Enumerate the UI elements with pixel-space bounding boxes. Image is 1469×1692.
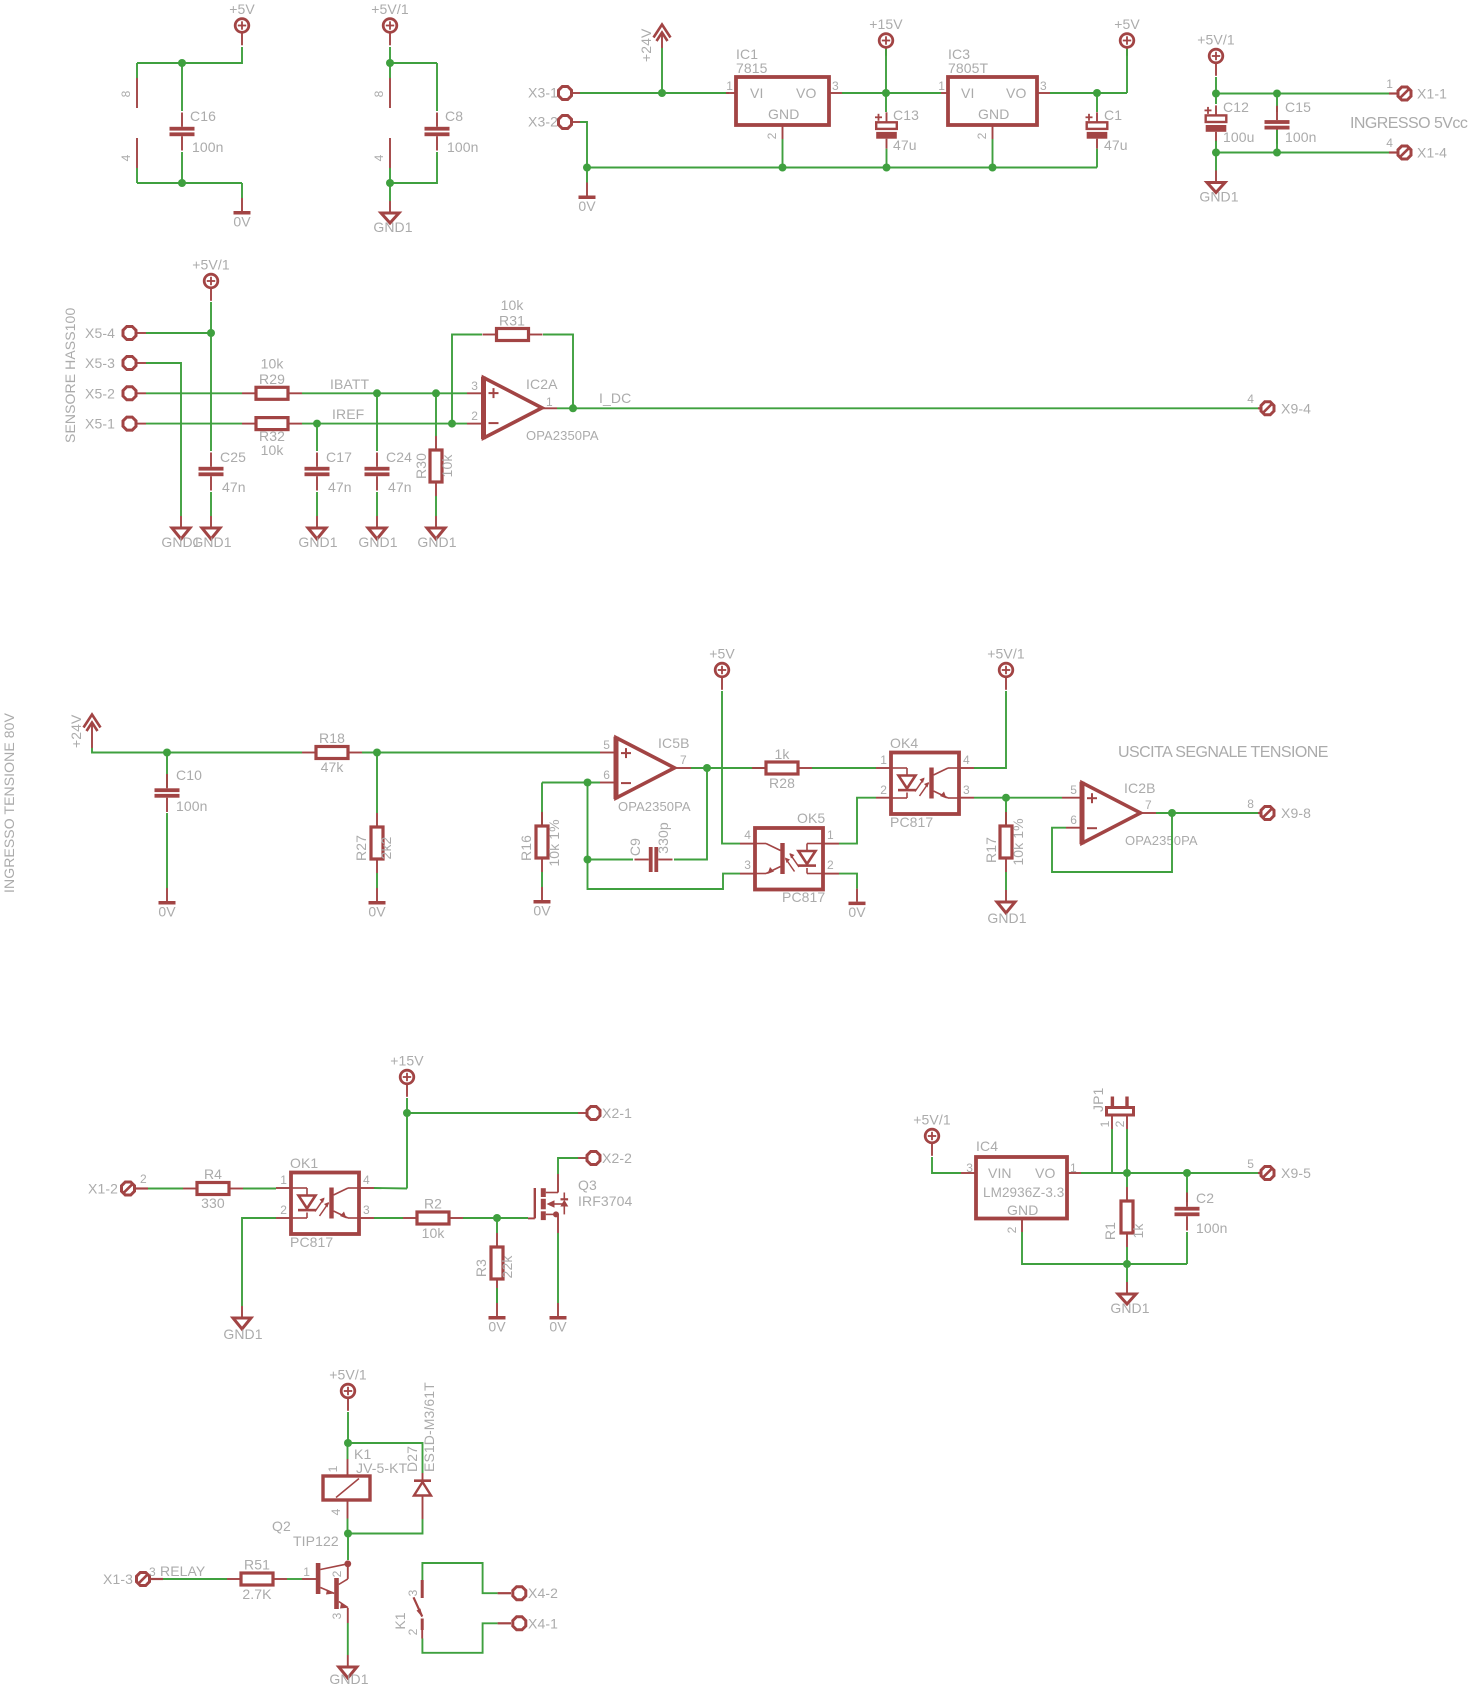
wire xyxy=(347,1534,349,1561)
ground 0V xyxy=(557,1288,559,1303)
svg-text:4: 4 xyxy=(963,753,970,767)
junction xyxy=(583,164,591,172)
svg-text:+5V: +5V xyxy=(1114,16,1140,32)
op-amp IC5B xyxy=(600,752,616,754)
svg-text:IC2B: IC2B xyxy=(1124,780,1156,796)
supply +24V arrow xyxy=(654,25,671,38)
wire xyxy=(146,392,242,394)
svg-text:X4-2: X4-2 xyxy=(528,1585,558,1601)
svg-text:47n: 47n xyxy=(388,479,412,495)
relay contact K1 xyxy=(422,1563,497,1598)
junction xyxy=(569,404,577,412)
wire xyxy=(812,767,876,769)
supply +5V xyxy=(1120,34,1134,48)
capacitor C10 100n xyxy=(166,753,168,788)
svg-text:X5-2: X5-2 xyxy=(85,385,115,401)
svg-text:0V: 0V xyxy=(533,903,551,919)
svg-text:R18: R18 xyxy=(319,730,345,746)
svg-text:6: 6 xyxy=(603,768,610,782)
wire OK4 pin3 out xyxy=(974,797,1062,799)
wire xyxy=(210,302,212,333)
wire OK5 pin2 to 0V xyxy=(839,873,857,875)
svg-text:4: 4 xyxy=(363,1173,370,1187)
svg-text:X9-8: X9-8 xyxy=(1281,805,1311,821)
wire OK1 pin3 xyxy=(374,1217,403,1219)
wire xyxy=(163,1578,227,1580)
svg-text:1: 1 xyxy=(1386,77,1393,91)
svg-text:2: 2 xyxy=(140,1172,147,1186)
svg-text:+5V/1: +5V/1 xyxy=(913,1112,951,1128)
svg-text:R1: R1 xyxy=(1102,1222,1118,1240)
svg-text:10k: 10k xyxy=(422,1225,446,1241)
wire gnd rail xyxy=(587,167,1097,169)
wire xyxy=(842,92,941,94)
svg-text:5: 5 xyxy=(603,738,610,752)
junction xyxy=(163,749,171,757)
wire xyxy=(661,48,663,93)
wire to X2-1 xyxy=(407,1112,578,1114)
junction xyxy=(403,1109,411,1117)
pad X5-1 xyxy=(123,417,136,430)
svg-text:GND1: GND1 xyxy=(358,534,397,550)
svg-text:X2-2: X2-2 xyxy=(602,1150,632,1166)
ground GND1 xyxy=(210,516,212,528)
svg-text:+5V/1: +5V/1 xyxy=(329,1367,367,1383)
svg-text:1: 1 xyxy=(726,79,733,93)
svg-text:IC4: IC4 xyxy=(976,1138,998,1154)
ground GND1 xyxy=(1005,890,1007,902)
svg-text:3: 3 xyxy=(744,858,751,872)
capacitor C1 47u xyxy=(1096,93,1098,112)
svg-text:R3: R3 xyxy=(473,1259,489,1277)
wire xyxy=(1096,149,1098,168)
wire OK1 pin2 gnd xyxy=(242,1218,276,1306)
svg-text:1: 1 xyxy=(326,1465,340,1472)
junction xyxy=(313,420,321,428)
svg-text:1: 1 xyxy=(303,1565,310,1579)
svg-text:INGRESSO 5Vcc: INGRESSO 5Vcc xyxy=(1350,115,1468,132)
capacitor C9 330p xyxy=(588,859,634,861)
wire xyxy=(347,1412,349,1443)
svg-text:6: 6 xyxy=(1070,813,1077,827)
junction xyxy=(989,164,997,172)
IC power pin 8 xyxy=(389,63,391,78)
ground GND1 xyxy=(347,1655,349,1667)
svg-text:10k: 10k xyxy=(439,454,455,478)
svg-text:3: 3 xyxy=(149,1565,156,1579)
wire xyxy=(782,139,784,168)
supply +5V xyxy=(235,19,249,33)
svg-text:USCITA SEGNALE TENSIONE: USCITA SEGNALE TENSIONE xyxy=(1118,744,1328,761)
svg-text:47u: 47u xyxy=(893,137,917,153)
svg-text:4: 4 xyxy=(329,1508,343,1515)
wire xyxy=(92,748,302,753)
svg-text:OPA2350PA: OPA2350PA xyxy=(618,799,691,814)
resistor R3 22k xyxy=(496,1218,498,1233)
svg-text:2: 2 xyxy=(975,132,989,139)
svg-text:2: 2 xyxy=(280,1203,287,1217)
ground GND1 xyxy=(1215,153,1217,171)
svg-text:10k: 10k xyxy=(261,356,285,372)
svg-text:47n: 47n xyxy=(328,479,352,495)
svg-text:330p: 330p xyxy=(655,822,671,854)
optocoupler OK1 PC817 xyxy=(291,1173,359,1235)
junction xyxy=(883,164,891,172)
svg-text:3: 3 xyxy=(363,1203,370,1217)
wire xyxy=(691,767,767,769)
wire xyxy=(587,783,589,860)
junction xyxy=(448,420,456,428)
IC power pin 4 xyxy=(389,138,391,168)
junction xyxy=(779,164,787,172)
svg-text:GND1: GND1 xyxy=(1110,1300,1149,1316)
svg-text:1: 1 xyxy=(827,828,834,842)
svg-text:0V: 0V xyxy=(488,1319,506,1335)
svg-text:4: 4 xyxy=(372,154,386,161)
wire OK1 pin4 xyxy=(374,1187,407,1190)
svg-text:C8: C8 xyxy=(445,108,463,124)
wire xyxy=(580,92,729,94)
pad X2-1 xyxy=(578,1112,587,1114)
svg-text:OPA2350PA: OPA2350PA xyxy=(526,428,599,443)
svg-text:4: 4 xyxy=(1386,136,1393,150)
svg-text:GND: GND xyxy=(978,106,1009,122)
svg-text:330: 330 xyxy=(201,1195,225,1211)
svg-text:D27: D27 xyxy=(404,1446,420,1472)
svg-text:GND: GND xyxy=(768,106,799,122)
svg-text:2: 2 xyxy=(1113,1120,1127,1127)
svg-text:JP1: JP1 xyxy=(1090,1087,1106,1112)
junction xyxy=(493,1214,501,1222)
svg-text:C10: C10 xyxy=(176,767,202,783)
svg-text:1: 1 xyxy=(880,753,887,767)
junction xyxy=(178,179,186,187)
svg-text:GND: GND xyxy=(1007,1202,1038,1218)
svg-text:0V: 0V xyxy=(158,904,176,920)
capacitor C17 47n xyxy=(316,424,318,451)
svg-text:IC2A: IC2A xyxy=(526,376,558,392)
svg-text:1: 1 xyxy=(546,395,553,409)
svg-text:VO: VO xyxy=(796,85,816,101)
transistor Q3 IRF3704 xyxy=(528,1217,535,1219)
svg-text:R16: R16 xyxy=(518,835,534,861)
svg-text:R2: R2 xyxy=(424,1196,442,1212)
junction xyxy=(386,179,394,187)
supply +15V xyxy=(400,1070,414,1084)
wire xyxy=(287,1578,302,1580)
resistor R27 2K2 xyxy=(376,753,378,814)
supply +5V/1 xyxy=(341,1384,355,1398)
junction xyxy=(373,749,381,757)
svg-text:IBATT: IBATT xyxy=(330,376,369,392)
svg-text:3: 3 xyxy=(330,1612,344,1619)
svg-text:RELAY: RELAY xyxy=(160,1563,206,1579)
svg-text:C24: C24 xyxy=(386,449,412,465)
wire xyxy=(1050,92,1127,94)
wire xyxy=(390,47,437,63)
svg-text:C15: C15 xyxy=(1285,99,1311,115)
svg-text:OK4: OK4 xyxy=(890,735,918,751)
svg-text:2: 2 xyxy=(765,132,779,139)
svg-text:C13: C13 xyxy=(893,107,919,123)
svg-text:7: 7 xyxy=(680,753,687,767)
svg-text:TIP122: TIP122 xyxy=(293,1533,339,1549)
capacitor C12 100u xyxy=(1215,94,1217,105)
wire pin6 node xyxy=(542,782,600,784)
svg-text:+5V/1: +5V/1 xyxy=(987,646,1025,662)
svg-text:10k: 10k xyxy=(261,442,285,458)
svg-text:22k: 22k xyxy=(499,1255,515,1279)
svg-text:10k 1%: 10k 1% xyxy=(546,819,562,866)
wire xyxy=(348,1519,423,1534)
svg-text:3: 3 xyxy=(471,379,478,393)
op-amp IC2B xyxy=(1062,797,1082,799)
svg-text:1k: 1k xyxy=(1130,1223,1146,1239)
svg-text:47u: 47u xyxy=(1104,137,1128,153)
svg-text:R27: R27 xyxy=(353,835,369,861)
svg-text:X3-2: X3-2 xyxy=(528,114,558,130)
svg-text:4: 4 xyxy=(1247,392,1254,406)
svg-text:X1-2: X1-2 xyxy=(88,1181,118,1197)
svg-text:R28: R28 xyxy=(769,775,795,791)
wire to D27 xyxy=(348,1443,423,1473)
wire xyxy=(181,152,183,183)
svg-text:PC817: PC817 xyxy=(782,889,825,905)
junction xyxy=(207,329,215,337)
svg-text:4: 4 xyxy=(744,828,751,842)
junction xyxy=(1123,1260,1131,1268)
svg-text:GND1: GND1 xyxy=(329,1671,368,1687)
svg-text:2: 2 xyxy=(827,858,834,872)
pad X2-2 xyxy=(578,1157,587,1159)
svg-text:0V: 0V xyxy=(578,198,596,214)
wire feedback IC2B xyxy=(1052,813,1172,872)
svg-text:+5V/1: +5V/1 xyxy=(192,257,230,273)
capacitor C25 47n xyxy=(210,333,212,451)
svg-text:JV-5-KT: JV-5-KT xyxy=(356,1460,408,1476)
wire xyxy=(1081,1172,1250,1174)
svg-text:1k: 1k xyxy=(775,746,791,762)
svg-text:C25: C25 xyxy=(220,449,246,465)
svg-text:5: 5 xyxy=(1247,1157,1254,1171)
svg-text:100u: 100u xyxy=(1223,129,1255,145)
svg-text:47n: 47n xyxy=(222,479,246,495)
resistor R29 10k xyxy=(256,387,288,399)
junction xyxy=(344,1530,352,1538)
junction xyxy=(658,89,666,97)
wire xyxy=(974,691,1006,768)
wire xyxy=(722,691,740,844)
junction xyxy=(703,764,711,772)
svg-text:C16: C16 xyxy=(190,108,216,124)
junction xyxy=(1273,149,1281,157)
wire xyxy=(932,1157,961,1173)
wire xyxy=(390,152,437,183)
wire xyxy=(137,182,242,184)
wire xyxy=(422,1623,497,1653)
svg-text:X1-1: X1-1 xyxy=(1417,86,1447,102)
IC power pin 4 xyxy=(136,138,138,168)
svg-text:GND1: GND1 xyxy=(417,534,456,550)
wire xyxy=(146,423,242,425)
IC power pin 8 xyxy=(136,63,138,78)
pad X3-1 xyxy=(559,87,572,100)
junction xyxy=(344,1439,352,1447)
wire xyxy=(886,149,888,168)
svg-text:R51: R51 xyxy=(244,1557,270,1573)
svg-text:X3-1: X3-1 xyxy=(528,85,558,101)
jumper JP1 xyxy=(1111,1129,1113,1173)
ground 0V xyxy=(586,168,588,183)
resistor R18 47k xyxy=(316,747,348,759)
pad X1-1 xyxy=(1389,92,1397,94)
wire xyxy=(463,1217,528,1219)
ground GND1 xyxy=(1126,1264,1128,1282)
svg-text:X2-1: X2-1 xyxy=(602,1105,632,1121)
resistor R16 10k 1% xyxy=(541,783,543,827)
svg-text:5: 5 xyxy=(1070,783,1077,797)
svg-text:X9-5: X9-5 xyxy=(1281,1165,1311,1181)
relay coil K1 JV-5-KT xyxy=(347,1443,349,1459)
supply +5V/1 xyxy=(925,1129,939,1143)
svg-text:K1: K1 xyxy=(392,1612,408,1629)
svg-text:+5V: +5V xyxy=(229,1,255,17)
svg-text:X4-1: X4-1 xyxy=(528,1615,558,1631)
junction xyxy=(1168,809,1176,817)
ground GND1 xyxy=(427,528,445,539)
capacitor C15 100n xyxy=(1276,94,1278,113)
svg-text:X9-4: X9-4 xyxy=(1281,400,1311,416)
svg-text:PC817: PC817 xyxy=(290,1234,333,1250)
ground GND1 xyxy=(389,183,391,201)
junction xyxy=(882,89,890,97)
svg-text:C9: C9 xyxy=(627,838,643,856)
wire xyxy=(347,1519,349,1534)
svg-text:+15V: +15V xyxy=(869,16,903,32)
wire xyxy=(302,423,467,425)
svg-text:LM2936Z-3.3: LM2936Z-3.3 xyxy=(983,1185,1064,1200)
junction xyxy=(432,389,440,397)
svg-text:SENSORE HASS100: SENSORE HASS100 xyxy=(62,308,78,443)
wire IC4 gnd xyxy=(1022,1232,1187,1264)
svg-text:X1-3: X1-3 xyxy=(103,1571,133,1587)
resistor R1 1k xyxy=(1126,1173,1128,1187)
wire xyxy=(1215,77,1217,94)
supply +5V/1 xyxy=(383,19,397,33)
svg-text:1: 1 xyxy=(280,1173,287,1187)
capacitor C13 47u xyxy=(876,122,897,129)
svg-text:X5-1: X5-1 xyxy=(85,416,115,432)
junction xyxy=(1212,90,1220,98)
svg-text:+15V: +15V xyxy=(390,1053,424,1069)
ground 0V xyxy=(376,873,378,888)
svg-text:GND1: GND1 xyxy=(373,219,412,235)
svg-text:7815: 7815 xyxy=(736,60,768,76)
pad X1-3 RELAY xyxy=(137,1573,150,1586)
wire I_DC xyxy=(557,407,1258,409)
pad X3-2 xyxy=(559,116,572,129)
ground GND1 xyxy=(180,516,182,528)
svg-text:Q2: Q2 xyxy=(272,1518,291,1534)
resistor R51 2.7K xyxy=(241,1573,273,1585)
svg-text:10k 1%: 10k 1% xyxy=(1010,818,1026,865)
svg-text:100n: 100n xyxy=(192,139,224,155)
capacitor C24 47n xyxy=(376,393,378,451)
pad X1-4 xyxy=(1389,151,1397,153)
svg-text:OK5: OK5 xyxy=(797,810,825,826)
svg-text:3: 3 xyxy=(966,1161,973,1175)
svg-text:2: 2 xyxy=(880,783,887,797)
supply +15V xyxy=(879,34,893,48)
svg-text:OPA2350PA: OPA2350PA xyxy=(1125,833,1198,848)
svg-text:IREF: IREF xyxy=(332,406,364,422)
op-amp IC2A xyxy=(467,392,483,394)
wire xyxy=(148,1188,183,1190)
svg-text:100n: 100n xyxy=(1285,129,1317,145)
svg-text:R30: R30 xyxy=(413,453,429,479)
svg-text:IRF3704: IRF3704 xyxy=(578,1193,633,1209)
svg-text:8: 8 xyxy=(119,90,133,97)
wire xyxy=(362,752,600,754)
svg-text:VI: VI xyxy=(750,85,763,101)
resistor R17 10k 1% xyxy=(1005,798,1007,826)
svg-text:2k2: 2k2 xyxy=(378,836,394,859)
svg-text:47k: 47k xyxy=(321,759,345,775)
svg-text:8: 8 xyxy=(1247,797,1254,811)
resistor R30 10k xyxy=(435,393,437,436)
resistor R4 330 xyxy=(197,1183,229,1195)
svg-text:PC817: PC817 xyxy=(890,814,933,830)
svg-text:+5V/1: +5V/1 xyxy=(371,1,409,17)
svg-text:OK1: OK1 xyxy=(290,1155,318,1171)
svg-text:INGRESSO TENSIONE 80V: INGRESSO TENSIONE 80V xyxy=(1,712,17,893)
pad X5-2 xyxy=(123,387,136,400)
optocoupler OK4 PC817 xyxy=(891,753,959,815)
svg-text:2: 2 xyxy=(330,1570,344,1577)
svg-text:100n: 100n xyxy=(176,798,208,814)
svg-text:2: 2 xyxy=(406,1628,420,1635)
voltage regulator IC3 7805T xyxy=(941,92,948,94)
svg-text:I_DC: I_DC xyxy=(599,390,631,406)
wire drain to X2-2 xyxy=(558,1158,578,1174)
svg-text:0V: 0V xyxy=(368,904,386,920)
pad X4-2 xyxy=(498,1592,511,1594)
svg-text:100n: 100n xyxy=(1196,1220,1228,1236)
svg-text:2: 2 xyxy=(471,409,478,423)
svg-text:R17: R17 xyxy=(983,837,999,863)
svg-text:C12: C12 xyxy=(1223,99,1249,115)
resistor R32 10k xyxy=(256,418,288,430)
supply +5V/1 xyxy=(999,663,1013,677)
wire emitter xyxy=(347,1623,349,1655)
wire source to 0V xyxy=(557,1233,559,1288)
ground GND1 xyxy=(368,528,386,539)
junction xyxy=(1183,1169,1191,1177)
capacitor C8 xyxy=(436,63,438,111)
svg-text:100n: 100n xyxy=(447,139,479,155)
wire OK5 pin3 feedback xyxy=(588,860,741,890)
svg-text:2.7K: 2.7K xyxy=(242,1586,272,1602)
ground 0V xyxy=(496,1288,498,1303)
svg-text:0V: 0V xyxy=(848,904,866,920)
svg-text:+5V: +5V xyxy=(709,646,735,662)
svg-text:GND1: GND1 xyxy=(161,534,200,550)
svg-text:2: 2 xyxy=(1005,1226,1019,1233)
svg-text:R4: R4 xyxy=(204,1166,222,1182)
supply +24V arrow xyxy=(84,715,101,728)
wire xyxy=(302,392,467,394)
pad X1-2 xyxy=(122,1182,135,1195)
